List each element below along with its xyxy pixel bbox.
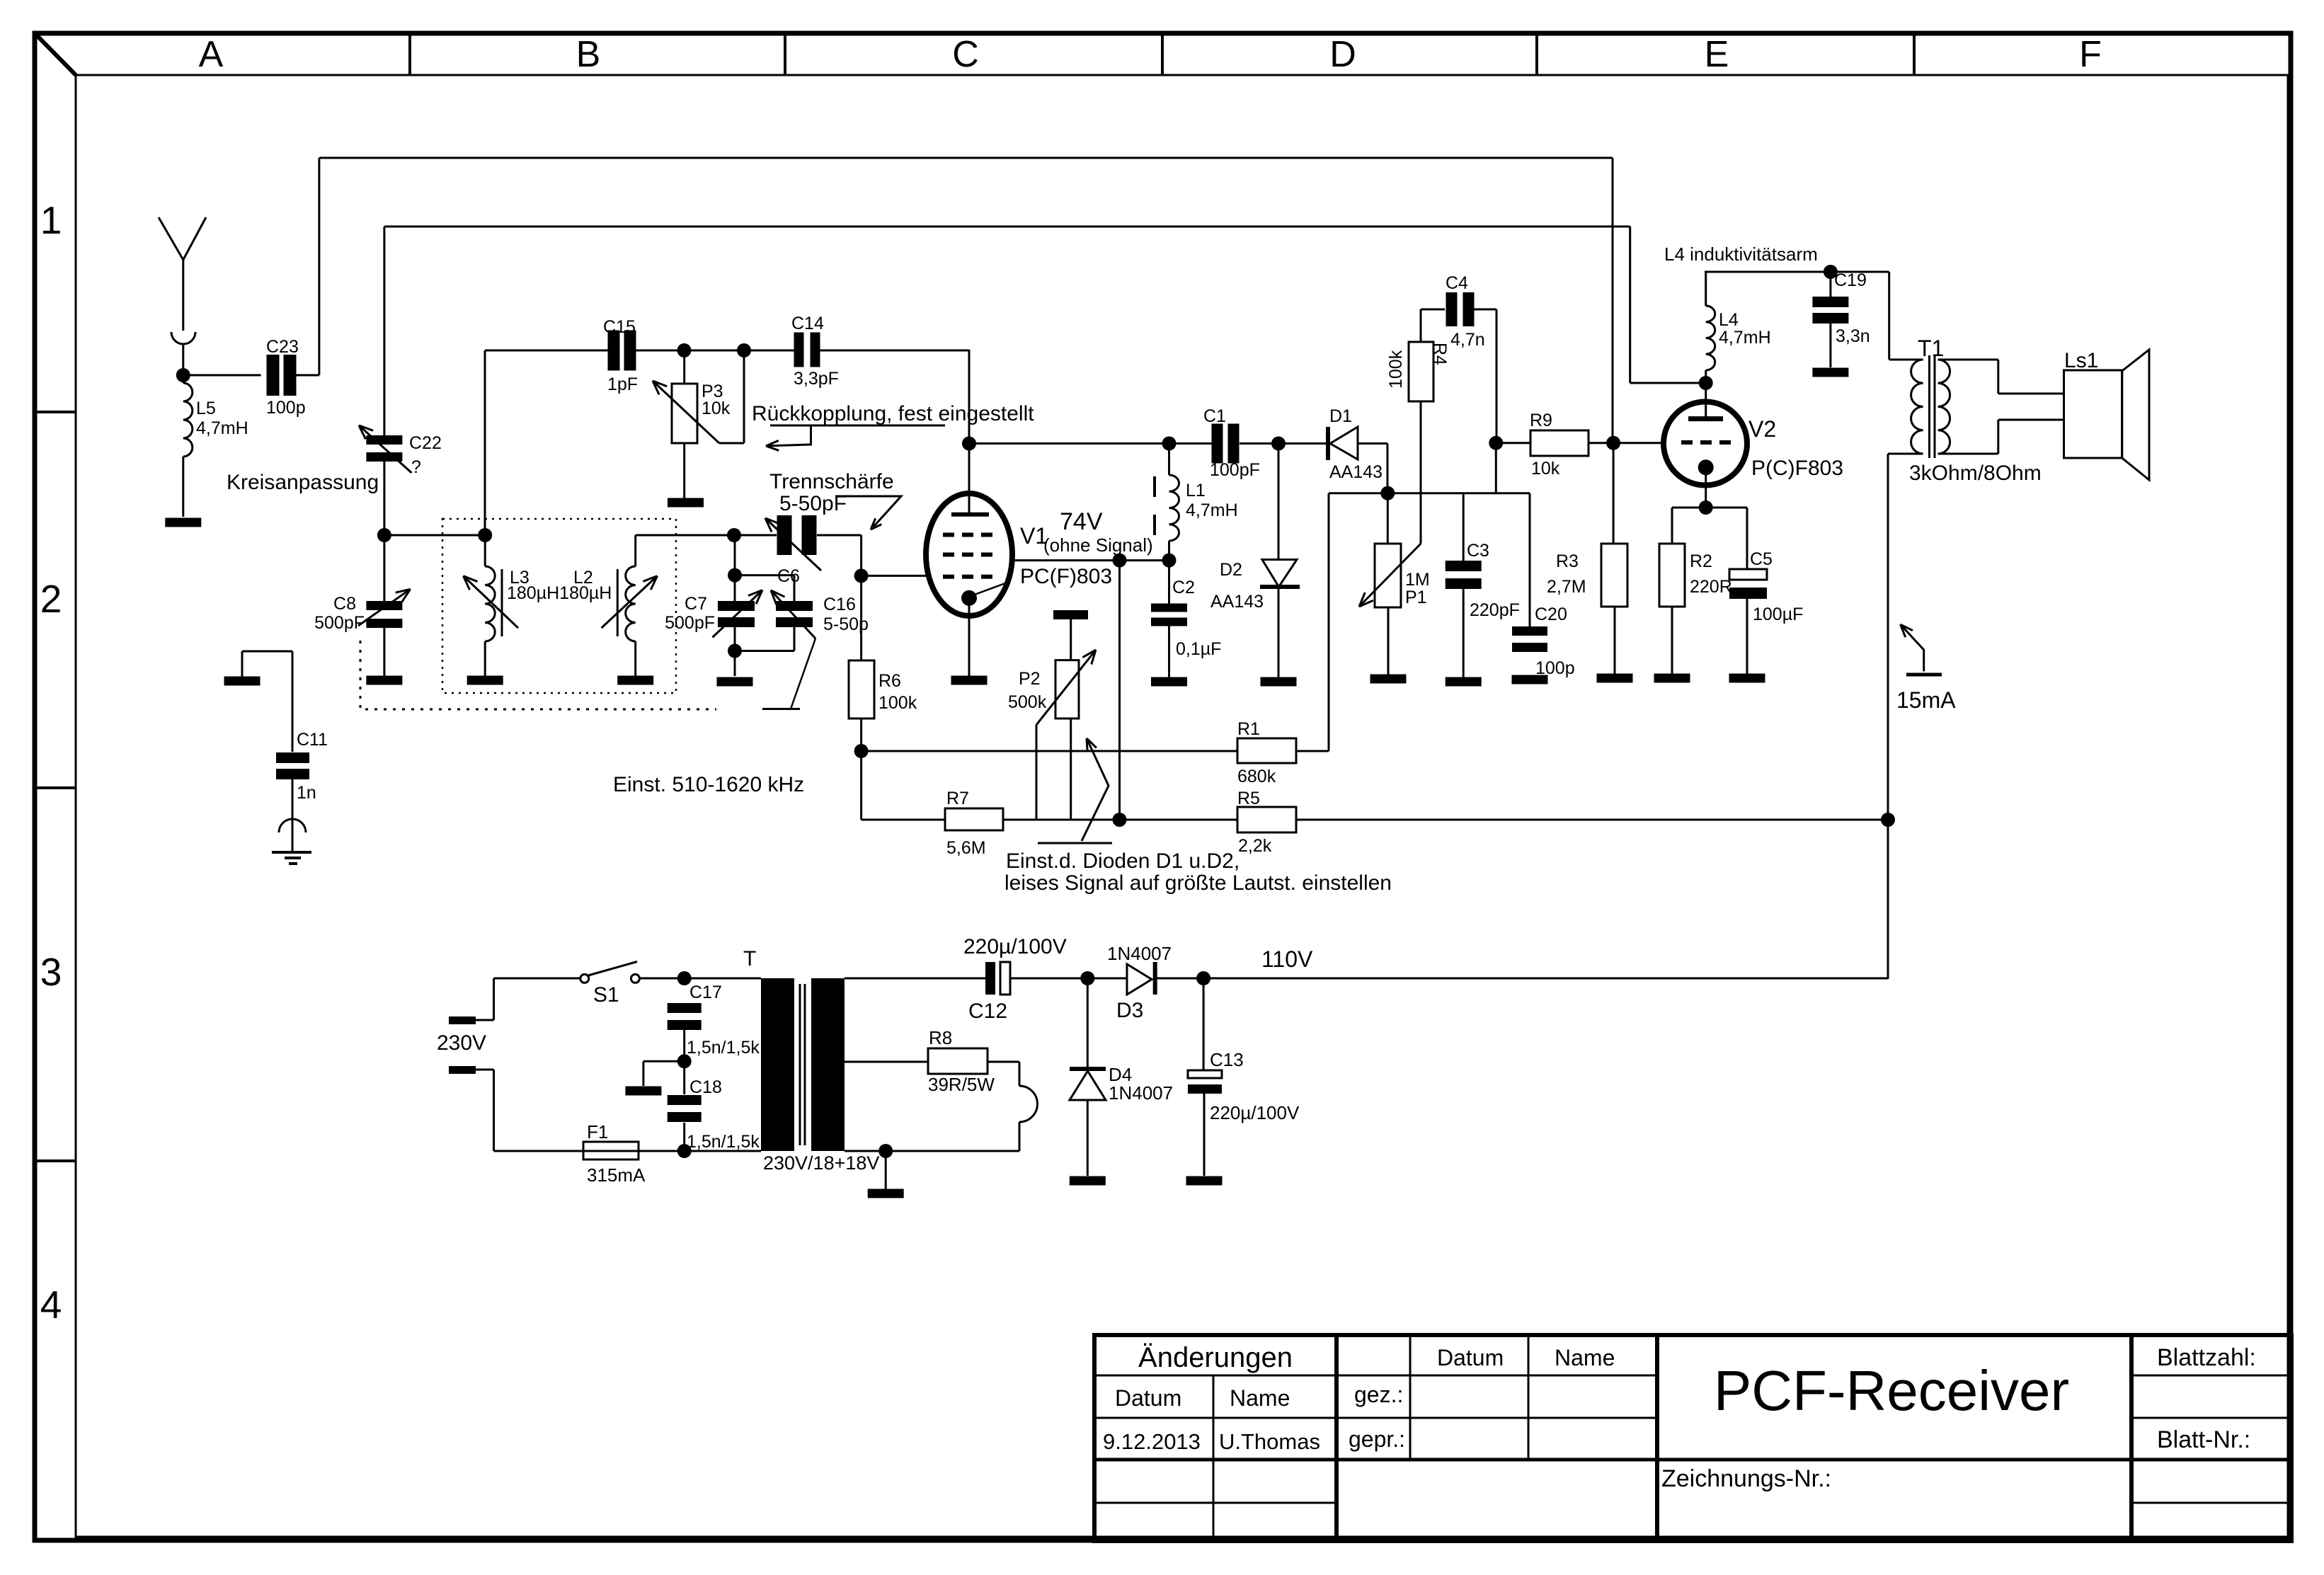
wire C16 top lead (794, 575, 796, 601)
wire L1 leads (1168, 444, 1170, 476)
svg-text:1n: 1n (297, 783, 316, 803)
T1 core (1928, 355, 1930, 458)
transformer T core (799, 984, 801, 1145)
svg-text:Rückkopplung, fest eingestellt: Rückkopplung, fest eingestellt (752, 402, 1034, 425)
node P3 top (677, 343, 692, 357)
svg-text:Name: Name (1230, 1385, 1290, 1411)
capacitor C19 (1812, 297, 1848, 307)
svg-text:4,7mH: 4,7mH (1719, 328, 1771, 348)
svg-text:74V: 74V (1060, 508, 1103, 535)
ground R2 (1654, 674, 1690, 683)
svg-text:Blattzahl:: Blattzahl: (2157, 1344, 2256, 1371)
wire L4 leads (1705, 272, 1707, 306)
svg-text:D3: D3 (1116, 999, 1143, 1022)
svg-text:C4: C4 (1446, 273, 1468, 293)
svg-text:C11: C11 (297, 730, 328, 750)
svg-text:P(C)F803: P(C)F803 (1751, 457, 1843, 480)
svg-text:S1: S1 (593, 983, 619, 1007)
node anode divider (1113, 813, 1127, 827)
svg-text:220pF: 220pF (1470, 600, 1520, 620)
wire heater rail (845, 1061, 928, 1063)
arrow C8 (358, 589, 411, 626)
tube V1 envelope (926, 493, 1012, 616)
inductor L4 (1706, 306, 1715, 370)
resistor R1 (1237, 738, 1296, 763)
node V1 top-cap bus (962, 437, 976, 451)
svg-text:315mA: 315mA (587, 1164, 646, 1186)
wire L2 leads (634, 535, 636, 566)
wire L2 top to grid bus (636, 534, 734, 537)
wire R9 left lead (1496, 442, 1530, 444)
capacitor C1 (1212, 424, 1223, 464)
node V1 anode a (1113, 554, 1127, 568)
arrow C22 (359, 425, 412, 473)
wire C12 to D3 (1010, 978, 1127, 980)
node D4 top (1080, 971, 1094, 985)
wire D2 ground lead (1278, 587, 1280, 677)
node L3 top (478, 528, 492, 542)
earth ground (272, 851, 311, 854)
ground L5 (165, 518, 201, 527)
V1 cathode dot (961, 590, 977, 606)
arrow C16 (771, 590, 815, 638)
capacitor C18 (668, 1095, 702, 1105)
V1 grids (dashed) (943, 533, 954, 537)
arrow C6 (765, 518, 821, 571)
resistor R5 (1237, 807, 1296, 832)
wire R3 top (1613, 443, 1615, 544)
title block grid (1094, 1335, 2291, 1541)
transformer T1 secondary (1938, 360, 1950, 454)
wire P2 bottom (1070, 718, 1072, 820)
wire B+ to 110V (1887, 820, 1889, 979)
node B+ / R5 (1881, 813, 1895, 827)
node V2 top cap (1699, 376, 1713, 390)
leader 5-50pF (835, 496, 901, 527)
diode D4 (1070, 1067, 1106, 1071)
pointer underline (762, 708, 800, 710)
node R9 right (1606, 436, 1620, 450)
resistor R3 (1601, 544, 1627, 607)
svg-text:180µH180µH: 180µH180µH (507, 583, 612, 603)
capacitor C13 (electrolytic) (1188, 1070, 1222, 1078)
svg-text:9.12.2013: 9.12.2013 (1103, 1429, 1201, 1454)
svg-text:PCF-Receiver: PCF-Receiver (1714, 1359, 2069, 1422)
svg-text:Trennschärfe: Trennschärfe (769, 470, 894, 493)
wire C18 bottom (683, 1123, 685, 1151)
capacitor C3 (1446, 561, 1482, 571)
ground chassis C11 (224, 677, 261, 686)
node C19 top (1824, 265, 1838, 279)
svg-text:C1: C1 (1203, 406, 1226, 426)
ground chassis tap (625, 1087, 661, 1096)
svg-text:3,3pF: 3,3pF (794, 369, 839, 389)
wire L5 leads (182, 375, 184, 383)
capacitor C5 (electrolytic) (1729, 569, 1767, 580)
wire C19 top lead (1829, 272, 1831, 297)
row tick y=1640 (35, 1159, 76, 1162)
svg-text:D2: D2 (1220, 560, 1242, 580)
svg-text:230V: 230V (437, 1031, 486, 1055)
wire C7 ground lead (734, 651, 736, 677)
node C18 bottom (677, 1144, 692, 1158)
node P1 top (1380, 486, 1395, 500)
svg-text:15mA: 15mA (1896, 687, 1956, 713)
wire C19 ground lead (1829, 323, 1831, 367)
inductor L5 (183, 383, 193, 457)
resistor R6 (849, 660, 874, 718)
svg-text:10k: 10k (702, 399, 731, 418)
node C17/C18 mid (677, 1054, 692, 1068)
svg-text:leises Signal auf größte Lauts: leises Signal auf größte Lautst. einstel… (1004, 871, 1392, 895)
core L3 (501, 569, 503, 636)
wire R9 left drop (1495, 443, 1497, 493)
row tick y=1113 (35, 786, 76, 789)
svg-text:C12: C12 (968, 1000, 1007, 1023)
ground R3 (1597, 674, 1633, 683)
ground C3 (1446, 677, 1482, 687)
svg-text:2,7M: 2,7M (1547, 577, 1586, 597)
wire P1 slider to R4 (1420, 401, 1422, 544)
svg-text:1N4007: 1N4007 (1109, 1082, 1173, 1104)
svg-text:R9: R9 (1530, 411, 1552, 430)
wire bottom rail (494, 1150, 584, 1152)
svg-text:2: 2 (40, 577, 62, 621)
svg-text:1: 1 (40, 198, 62, 242)
wire C7 top lead (734, 575, 736, 601)
wire C2 ground lead (1168, 625, 1170, 677)
arrow Rueckkopplung (766, 425, 811, 446)
wire L3 leads (484, 535, 486, 566)
wire T1 sec top (1938, 359, 1998, 361)
wire C17-C18 link (683, 1028, 685, 1094)
wire feedback bus y=320 (384, 226, 1630, 228)
wire S1 to transformer (639, 978, 761, 980)
wire T1 primary top (1888, 272, 1890, 360)
wire anode divider riser (1118, 561, 1121, 820)
capacitor C12 (electrolytic) (985, 962, 995, 995)
capacitor C20 (1512, 626, 1547, 636)
wire R6 top (860, 575, 862, 660)
capacitor C2 (1151, 604, 1187, 612)
wire antenna to C23 (183, 374, 261, 377)
svg-text:220R: 220R (1690, 577, 1732, 597)
svg-text:100µF: 100µF (1753, 605, 1803, 624)
column tick x=1109 (784, 33, 786, 75)
svg-text:R7: R7 (946, 789, 969, 808)
ground C19 (1812, 368, 1848, 377)
svg-text:C: C (952, 34, 979, 75)
wire T1 primary bottom (1888, 453, 1923, 455)
svg-text:C14: C14 (791, 314, 824, 333)
svg-text:gepr.:: gepr.: (1349, 1426, 1405, 1452)
wire P2 slider down (1036, 725, 1038, 820)
node D2 top (1271, 437, 1286, 451)
svg-text:C23: C23 (266, 337, 299, 357)
svg-text:B: B (576, 34, 601, 75)
svg-text:100pF: 100pF (1210, 460, 1260, 480)
wire C3 top lead (1462, 493, 1465, 561)
wire chassis tap (643, 1060, 685, 1063)
svg-text:P2: P2 (1019, 669, 1041, 689)
diode D3 (1127, 964, 1152, 995)
wire HT secondary out (845, 978, 985, 980)
svg-text:5,6M: 5,6M (946, 838, 986, 858)
svg-text:F1: F1 (587, 1121, 608, 1142)
terminal 230V upper (449, 1016, 476, 1024)
svg-text:V2: V2 (1748, 416, 1776, 442)
svg-text:T1: T1 (1918, 336, 1944, 361)
svg-text:Datum: Datum (1437, 1345, 1504, 1370)
arrow C7 (713, 590, 763, 638)
wire R5 right (1296, 819, 1888, 821)
wire C13 top lead (1203, 978, 1205, 1070)
capacitor C4 (1446, 292, 1458, 326)
svg-text:?: ? (411, 457, 421, 477)
capacitor C6 (variable) (777, 515, 792, 555)
svg-text:680k: 680k (1237, 767, 1276, 786)
node P3 slider (737, 343, 751, 357)
wire R7 to R5 (1003, 819, 1237, 821)
wire V1 grid (862, 575, 929, 577)
svg-text:F: F (2079, 34, 2102, 75)
svg-text:1,5n/1,5k: 1,5n/1,5k (687, 1038, 760, 1058)
capacitor C16 (variable) (776, 601, 813, 611)
svg-text:Einst.d. Dioden D1 u.D2,: Einst.d. Dioden D1 u.D2, (1006, 849, 1240, 873)
wire AGC bus y=697 (1329, 492, 1530, 494)
V1 cathode leader (973, 583, 1005, 595)
terminal 230V lower (449, 1066, 476, 1074)
wire C11 to earth (292, 779, 294, 852)
svg-text:1,5n/1,5k: 1,5n/1,5k (687, 1132, 760, 1152)
transformer T secondary bar (811, 978, 845, 1151)
svg-text:U.Thomas: U.Thomas (1219, 1429, 1320, 1454)
wire C22 node to L3 (384, 534, 485, 537)
capacitor C23 (267, 355, 280, 396)
column tick x=2704 (1913, 33, 1916, 75)
column tick x=2171 (1535, 33, 1538, 75)
wire D3 out (1156, 978, 1203, 980)
svg-text:100p: 100p (266, 398, 306, 418)
node antenna junction (176, 368, 190, 382)
wire C7/C16 top link (735, 574, 794, 576)
svg-text:R1: R1 (1237, 719, 1260, 739)
V1 anode bar (951, 512, 989, 517)
wire L4 top bus (1705, 271, 1889, 273)
tube V2 envelope (1664, 402, 1747, 486)
svg-text:D1: D1 (1329, 406, 1352, 426)
wire grid top bus (484, 350, 486, 535)
wire S1 rail (494, 978, 581, 980)
wire C7 bottom lead (734, 627, 736, 651)
ground L3 (467, 676, 503, 685)
capacitor C17 (668, 1003, 702, 1013)
svg-text:Blatt-Nr.:: Blatt-Nr.: (2157, 1426, 2250, 1453)
svg-text:39R/5W: 39R/5W (928, 1074, 995, 1095)
wire R3 ground lead (1614, 607, 1616, 674)
pointer diagonal (791, 638, 815, 709)
wire riser to top bus (318, 158, 320, 375)
capacitor C11 (276, 752, 309, 763)
ground C5 (1729, 674, 1765, 683)
svg-text:L1: L1 (1186, 481, 1206, 500)
wire V1 cathode (968, 605, 971, 676)
ground P1 (1370, 675, 1407, 684)
wire R1 right (1296, 750, 1329, 752)
svg-text:0,1µF: 0,1µF (1176, 639, 1221, 659)
svg-text:110V: 110V (1261, 946, 1313, 972)
svg-text:3,3n: 3,3n (1836, 326, 1870, 346)
svg-text:Name: Name (1555, 1345, 1615, 1370)
capacitor C7 (variable) (718, 601, 755, 611)
wire D2 down (1278, 444, 1280, 560)
V2 grid (dashed) (1681, 440, 1693, 445)
ground D4 (1070, 1176, 1106, 1186)
node V1 grid bus (854, 568, 869, 583)
capacitor C8 (variable) (366, 601, 402, 610)
dashed gang link (360, 641, 716, 709)
svg-text:C5: C5 (1750, 549, 1773, 569)
wire top bus y=223 (319, 157, 1613, 159)
resistor R4 (1409, 342, 1433, 401)
resistor R2 (1659, 544, 1685, 607)
svg-text:3kOhm/8Ohm: 3kOhm/8Ohm (1909, 462, 2042, 485)
svg-text:230V/18+18V: 230V/18+18V (763, 1152, 879, 1174)
ground D2 (1261, 677, 1297, 687)
resistor R8 (928, 1048, 988, 1074)
wire cathode split (1672, 507, 1747, 509)
ground C13 (1186, 1176, 1223, 1186)
capacitor C15 (608, 331, 620, 371)
wire D1 out (1358, 442, 1387, 445)
svg-text:1pF: 1pF (607, 374, 638, 394)
resistor R9 (1530, 430, 1589, 456)
svg-text:R4: R4 (1430, 343, 1450, 365)
overline Einst.d. (1038, 842, 1112, 844)
svg-text:(ohne Signal): (ohne Signal) (1043, 534, 1153, 556)
wire P3 top lead (683, 350, 685, 384)
node V1 anode b (1162, 554, 1177, 568)
wire mains lower (476, 1069, 494, 1071)
arrow Einst.d. (1082, 738, 1109, 841)
svg-text:10k: 10k (1531, 459, 1560, 479)
svg-text:500pF: 500pF (314, 613, 365, 633)
svg-text:gez.:: gez.: (1354, 1382, 1403, 1407)
wire mains upper (476, 1019, 494, 1021)
wire C1 to D1 (1240, 442, 1326, 445)
ground C8 (366, 676, 402, 685)
svg-text:AA143: AA143 (1329, 462, 1383, 482)
arrow L3 (464, 576, 519, 629)
resistor R7 (945, 808, 1003, 830)
wire C5 ground lead (1746, 599, 1748, 674)
svg-text:Zeichnungs-Nr.:: Zeichnungs-Nr.: (1661, 1465, 1831, 1492)
svg-text:A: A (199, 34, 224, 75)
svg-text:L4: L4 (1719, 310, 1739, 330)
svg-text:PC(F)803: PC(F)803 (1020, 565, 1112, 588)
wire R7 row left (862, 819, 945, 821)
arrow P1 slider (1359, 544, 1421, 607)
wire V1 anode out (1012, 559, 1169, 561)
wire P1 top lead (1387, 493, 1389, 544)
core L2 (617, 569, 619, 636)
ground C2 (1151, 677, 1187, 687)
svg-text:220µ/100V: 220µ/100V (963, 935, 1067, 958)
capacitor C14 (794, 333, 804, 367)
wire R2 ground lead (1671, 607, 1673, 674)
ground P3 (668, 498, 704, 508)
svg-text:D: D (1329, 34, 1356, 75)
antenna ANT1 (159, 217, 183, 260)
inductor L2 (variable) (626, 566, 636, 641)
svg-text:C16: C16 (823, 595, 856, 614)
svg-text:4,7n: 4,7n (1450, 330, 1485, 350)
wire P2 top (1070, 619, 1072, 660)
svg-text:R5: R5 (1237, 789, 1260, 808)
node C7 top bus (727, 528, 741, 542)
svg-text:3: 3 (40, 950, 62, 994)
wire C7 stub (734, 535, 736, 575)
arrow L2 (602, 576, 658, 629)
wire C3 ground lead (1462, 589, 1465, 677)
svg-text:T: T (743, 947, 756, 970)
node L1 top (1162, 437, 1177, 451)
capacitor C22 (variable) (366, 435, 402, 445)
inductor L3 (variable) (485, 566, 495, 641)
wire R1 row (862, 750, 1237, 752)
underline Rueckkopplung (770, 425, 945, 427)
svg-text:Ls1: Ls1 (2064, 349, 2098, 372)
wire secondary bottom rail (845, 1150, 1019, 1152)
svg-text:R8: R8 (929, 1027, 952, 1048)
speaker Ls1 (2064, 370, 2122, 458)
node C7/C16 bottom (728, 644, 742, 658)
node C17 top (677, 971, 692, 985)
ground C20 (1512, 675, 1548, 685)
svg-text:Kreisanpassung: Kreisanpassung (227, 471, 379, 494)
wire grid bus through C6 (734, 534, 777, 537)
potentiometer P2 (1055, 660, 1079, 718)
svg-text:500pF: 500pF (665, 613, 715, 633)
P2 top bar (1053, 610, 1088, 619)
svg-text:2,2k: 2,2k (1238, 836, 1272, 856)
V2 cathode dot (1698, 459, 1714, 475)
transformer T1 primary (1911, 360, 1923, 454)
wire V2 top cap (1705, 383, 1707, 417)
svg-text:C8: C8 (333, 594, 356, 614)
column tick x=1642 (1161, 33, 1164, 75)
column tick x=579 (408, 33, 411, 75)
wire feedback drop (1629, 227, 1631, 383)
ground V1 cathode (951, 676, 988, 685)
V2 anode bar (1688, 416, 1723, 421)
arrow P3 slider (653, 381, 719, 443)
svg-text:4,7mH: 4,7mH (196, 418, 248, 438)
svg-text:R3: R3 (1556, 551, 1579, 571)
svg-text:C18: C18 (689, 1077, 722, 1097)
wire top bus drop to R9 node (1612, 158, 1614, 443)
wire T1 sec bottom (1938, 453, 1998, 455)
svg-text:4,7mH: 4,7mH (1186, 500, 1238, 520)
wire R4 top / C4 loop (1420, 309, 1422, 342)
node secondary ground tap (878, 1144, 893, 1158)
potentiometer P3 (672, 384, 697, 443)
svg-text:100k: 100k (1386, 350, 1406, 389)
diode D2 (1262, 560, 1297, 588)
node C7/C16 top (728, 568, 742, 583)
svg-text:220µ/100V: 220µ/100V (1210, 1102, 1300, 1123)
svg-text:L5: L5 (196, 399, 216, 418)
